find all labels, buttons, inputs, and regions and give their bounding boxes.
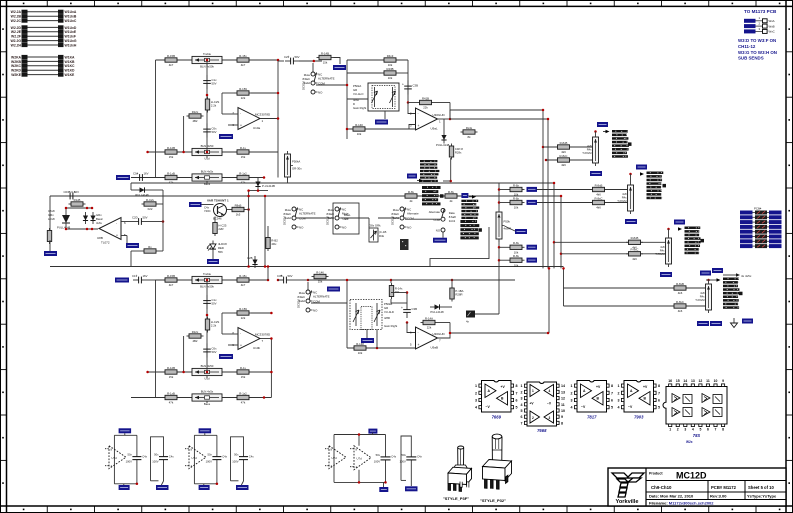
svg-text:-: - <box>240 111 241 115</box>
junction ch9 fb <box>277 92 280 95</box>
ch9 opamp in- wire <box>222 113 238 115</box>
junction bus h <box>547 332 550 335</box>
svg-text:50V: 50V <box>212 82 217 86</box>
svg-text:R-8y: R-8y <box>448 190 455 194</box>
svg-text:2.2k: 2.2k <box>211 104 217 108</box>
svg-text:R-1x2: R-1x2 <box>239 391 247 395</box>
svg-text:8: 8 <box>516 384 518 388</box>
svg-text:VU-4LD: VU-4LD <box>384 310 394 314</box>
svg-text:C2D: C2D <box>132 215 138 219</box>
junction send4 top <box>707 279 710 282</box>
svg-text:100V: 100V <box>400 460 406 464</box>
ch10 opamp in- bend <box>221 313 223 334</box>
svg-text:50x: 50x <box>208 453 213 457</box>
pot drawing STYLE_P3F <box>448 446 472 491</box>
resistor Rch102 <box>235 274 252 287</box>
svg-text:W3:D TO W3:F ON: W3:D TO W3:F ON <box>738 38 776 43</box>
resistor Rch91 <box>163 54 180 67</box>
svg-text:C4x: C4x <box>142 454 147 458</box>
svg-text:T-P2xM: T-P2xM <box>695 298 705 302</box>
mid rail y183 <box>131 182 554 184</box>
volume wiper down <box>384 111 386 119</box>
junction ch10 fb node <box>406 321 409 324</box>
svg-text:Product: Product <box>649 472 663 476</box>
capacitor C3B ch9 <box>402 81 418 95</box>
net label send3 bottom <box>660 272 672 277</box>
svg-text:-: - <box>418 112 419 116</box>
resistor Rch95 <box>163 171 180 184</box>
svg-text:NO: NO <box>407 225 412 229</box>
diode LED LDx8 <box>48 208 71 230</box>
decA cap1 top lead <box>136 435 138 456</box>
svg-text:W1KE: W1KE <box>65 73 76 77</box>
ch10 fb row right <box>251 312 271 314</box>
fader send2 <box>617 185 633 214</box>
resistor Rch92 <box>235 54 252 67</box>
text LED label <box>218 242 227 254</box>
mute COM to volume <box>316 84 347 86</box>
svg-text:4k6: 4k6 <box>632 257 637 261</box>
resistor R-C2x F22 <box>142 198 159 211</box>
connector W2 row 6 <box>740 235 782 239</box>
svg-text:R-1x: R-1x <box>240 366 247 370</box>
svg-text:C4x: C4x <box>391 455 396 459</box>
svg-text:T-P2xM: T-P2xM <box>617 199 627 203</box>
op-amp U8B <box>97 218 126 245</box>
svg-text:W1KD: W1KD <box>65 69 76 73</box>
svg-text:1: 1 <box>669 428 671 432</box>
svg-text:U7d: U7d <box>332 456 338 460</box>
decA rect1 left <box>113 435 115 484</box>
ch10 fb top wire <box>391 292 407 294</box>
svg-text:3: 3 <box>571 399 573 403</box>
svg-text:1: 1 <box>532 389 534 393</box>
switch aux F <box>429 208 456 232</box>
wire base <box>202 204 214 206</box>
resistor R left col <box>47 228 51 244</box>
ch9 left vertical <box>155 60 157 178</box>
svg-text:W1KC: W1KC <box>65 64 76 68</box>
op-amp dashed decA <box>105 446 126 469</box>
svg-text:2: 2 <box>618 391 620 395</box>
ch10 rail a <box>278 279 284 281</box>
mid rail y266 <box>50 266 564 268</box>
junction bus e <box>542 146 545 149</box>
svg-text:P50k: P50k <box>504 220 511 224</box>
svg-text:R4x: R4x <box>660 249 665 253</box>
svg-text:2: 2 <box>475 391 477 395</box>
resistor Rch96 <box>235 171 252 184</box>
pot cluster Gain Right ch9 <box>368 83 399 111</box>
decB rect1 bottom <box>194 483 217 485</box>
svg-text:4/8R: 4/8R <box>384 316 390 320</box>
IC 7668 <box>521 382 566 433</box>
resistor Rfb ch10 <box>235 307 252 320</box>
svg-text:W2KE: W2KE <box>11 73 22 77</box>
diode PULL4148 top <box>135 187 149 197</box>
wire to net after R14B <box>334 58 341 65</box>
wire aux E tap <box>442 232 444 238</box>
wire mid fader to jack <box>475 313 499 315</box>
svg-text:R-8xC: R-8xC <box>595 196 603 200</box>
ch10 fb vert <box>449 323 451 334</box>
svg-text:W1KA: W1KA <box>65 55 76 59</box>
svg-text:R-14B: R-14B <box>321 51 329 55</box>
mid vert x265 <box>264 196 266 267</box>
junction bus a <box>542 109 545 112</box>
junction ch9 d <box>146 151 149 154</box>
svg-text:R4k: R4k <box>379 234 385 238</box>
svg-text:-: - <box>418 331 419 335</box>
svg-text:+: + <box>116 234 118 238</box>
svg-text:BLN 4x5x: BLN 4x5x <box>201 390 214 394</box>
svg-text:+: + <box>402 83 404 87</box>
ml diode wire <box>131 189 135 191</box>
switch aux B box <box>333 203 359 234</box>
svg-text:G8x GRk: G8x GRk <box>369 224 381 228</box>
text Gain Right ch9 <box>353 84 366 110</box>
junction ch10 fb top <box>406 291 409 294</box>
svg-text:15k: 15k <box>323 61 328 65</box>
junction ch9 sv <box>182 151 185 154</box>
wire W2KE to W1K <box>11 73 75 78</box>
opamp2 in- wire <box>408 102 417 104</box>
svg-text:+V: +V <box>596 385 601 389</box>
wire send1 fader top <box>595 132 597 138</box>
decA rect2 bottom <box>151 480 159 482</box>
ch10 opamp in+ wire <box>228 344 238 346</box>
svg-text:4: 4 <box>618 406 620 410</box>
wire mid tap y189.5 <box>499 189 508 191</box>
svg-text:C3B: C3B <box>412 307 418 311</box>
decC rect2 <box>401 436 411 480</box>
svg-text:5: 5 <box>516 406 518 410</box>
net stack GP1 text <box>420 160 439 182</box>
svg-text:P-UL414B: P-UL414B <box>262 184 275 188</box>
svg-text:PULL4148: PULL4148 <box>135 193 149 197</box>
svg-text:R-1x2: R-1x2 <box>239 171 247 175</box>
svg-text:U30GUD: U30GUD <box>433 332 446 336</box>
junction bus d <box>560 195 563 198</box>
left col down <box>49 196 51 232</box>
svg-text:R12x: R12x <box>192 110 199 114</box>
svg-text:Alternate: Alternate <box>407 212 419 216</box>
connector W2 row 5 <box>740 230 782 234</box>
ch9 small vert <box>183 116 185 152</box>
svg-text:DCOM: DCOM <box>302 81 306 90</box>
node row y229 <box>66 228 98 230</box>
fb vertical <box>449 103 451 120</box>
ch9 right vertical <box>277 60 279 178</box>
title block frame <box>608 468 786 506</box>
capacitor C13 ch10 <box>203 295 217 309</box>
junction decB bottom <box>216 483 219 486</box>
decB rect2 <box>231 437 244 481</box>
junction collector <box>247 208 250 211</box>
svg-text:2: 2 <box>532 416 534 420</box>
svg-text:R43B: R43B <box>387 67 394 71</box>
svg-text:U5d: U5d <box>204 157 210 161</box>
capacitor decB C1 <box>206 453 228 464</box>
ch10 cap top <box>406 293 408 305</box>
svg-text:3xC2: 3xC2 <box>449 219 456 223</box>
ch9 mix in wire <box>347 128 416 130</box>
text GRx basic <box>96 213 103 225</box>
junction bus c <box>553 182 556 185</box>
wire send3 fader top <box>668 229 670 238</box>
fader aux bottom wire <box>287 177 289 183</box>
svg-text:22R: 22R <box>218 227 223 231</box>
svg-text:PCB# M1172: PCB# M1172 <box>711 485 737 490</box>
svg-text:7669: 7669 <box>492 415 502 420</box>
bus x554 <box>553 183 555 268</box>
svg-text:U10a: U10a <box>253 126 261 130</box>
resistor R mid left <box>69 198 86 206</box>
svg-text:R12x: R12x <box>192 330 199 334</box>
fader mid bottom <box>498 239 500 314</box>
svg-text:1: 1 <box>618 384 620 388</box>
ch10 r28 top <box>451 280 453 286</box>
mid vert x248 <box>248 191 250 267</box>
ml res bot wire <box>159 250 164 252</box>
svg-text:SUB SENDS: SUB SENDS <box>738 56 764 61</box>
capacitor C6 ch10 <box>203 344 217 358</box>
resistor R aux A <box>403 190 420 203</box>
svg-text:1k5: 1k5 <box>236 213 241 217</box>
svg-text:W2KC: W2KC <box>11 64 22 68</box>
junction bus j <box>553 241 556 244</box>
svg-text:16V: 16V <box>143 274 148 278</box>
ground symbol <box>731 318 738 328</box>
resistor mid tap y202.5 <box>508 196 525 209</box>
svg-text:Filename: M1172v300sch.sch2002: Filename: M1172v300sch.sch2002 <box>649 501 714 506</box>
ml top stub <box>130 183 132 190</box>
svg-text:W1UxH: W1UxH <box>65 43 77 47</box>
r-b2 top <box>267 226 269 235</box>
junction mid c <box>247 265 250 268</box>
svg-text:DCOM: DCOM <box>283 216 287 225</box>
svg-text:R-15x: R-15x <box>239 54 247 58</box>
connector W3 row WxB <box>744 22 775 29</box>
junction send1 top <box>594 130 597 133</box>
collector wire <box>227 209 230 211</box>
svg-text:3: 3 <box>684 428 686 432</box>
svg-text:P50kA: P50kA <box>292 160 300 164</box>
svg-text:4x8: 4x8 <box>622 192 627 196</box>
resistor send3 B <box>626 248 643 261</box>
connector W3 row WxA <box>744 16 775 23</box>
decB bot stub <box>203 484 205 485</box>
mute COM to pot ch10 <box>311 302 347 304</box>
svg-text:U8B: U8B <box>97 236 103 240</box>
net label decC bot2 <box>405 486 418 491</box>
net label decA top <box>119 428 132 433</box>
svg-text:W2.2B: W2.2B <box>11 15 22 19</box>
svg-text:100V: 100V <box>126 459 132 463</box>
svg-text:R-1xB: R-1xB <box>167 391 175 395</box>
svg-text:Rev:3.00: Rev:3.00 <box>710 494 727 499</box>
svg-text:Gain Right: Gain Right <box>384 324 397 328</box>
junction bus g <box>548 267 551 270</box>
ch10 small vert <box>183 336 185 372</box>
resistor mid tap y189.5 <box>508 183 525 196</box>
mid top rail <box>249 190 268 192</box>
svg-text:15: 15 <box>676 379 680 383</box>
svg-text:R-8x: R-8x <box>513 196 520 200</box>
svg-text:22k: 22k <box>427 326 432 330</box>
net label emitter <box>207 259 219 264</box>
capacitor C2D <box>132 215 148 225</box>
svg-text:W1UxF: W1UxF <box>65 35 77 39</box>
svg-text:50x: 50x <box>401 453 406 457</box>
ch10 diode wire <box>444 306 452 308</box>
svg-text:W2KD: W2KD <box>11 69 22 73</box>
svg-text:C4x: C4x <box>249 454 254 458</box>
volume loop left vertical <box>346 60 348 139</box>
d1b join <box>257 177 259 180</box>
junction ch10 f <box>277 279 280 282</box>
svg-text:R-15x: R-15x <box>239 274 247 278</box>
svg-text:4B2: 4B2 <box>193 339 198 343</box>
junction ch9 out <box>277 117 280 120</box>
ch10 rail c <box>308 279 391 281</box>
fader aux P50kA <box>285 151 303 180</box>
svg-text:C4x: C4x <box>222 454 227 458</box>
svg-text:C1x: C1x <box>132 274 138 278</box>
svg-text:Ch9-Ch10: Ch9-Ch10 <box>651 485 672 490</box>
svg-text:W2KB: W2KB <box>11 60 22 64</box>
svg-text:9: 9 <box>561 415 563 419</box>
IC 78S <box>663 379 727 438</box>
wire W2KC to W1K <box>11 64 75 68</box>
svg-text:16: 16 <box>668 379 672 383</box>
ml res bot left <box>131 250 142 252</box>
pot aux C <box>369 224 386 243</box>
wire send3 arrow <box>678 227 682 231</box>
svg-text:"STYLE_P32": "STYLE_P32" <box>480 498 506 503</box>
wire mid tap y260.2 <box>499 259 508 261</box>
resistor Rch106 <box>235 391 252 404</box>
connector stack send3 <box>685 227 705 255</box>
junction bus i <box>545 159 548 162</box>
svg-text:R-8xB: R-8xB <box>631 236 639 240</box>
svg-text:"STYLE_P3F": "STYLE_P3F" <box>443 496 469 501</box>
svg-text:3: 3 <box>618 399 620 403</box>
svg-text:R28R: R28R <box>455 293 462 297</box>
svg-text:W1UxD: W1UxD <box>65 26 77 30</box>
diode stub ch9 <box>443 119 445 132</box>
connector stack send2 <box>647 172 667 200</box>
note W3 jumpers <box>738 38 777 61</box>
svg-text:1: 1 <box>521 384 523 388</box>
svg-text:U9aB: U9aB <box>431 346 439 350</box>
wire mid tap y247.3 <box>499 246 508 248</box>
svg-text:R-8x: R-8x <box>408 190 415 194</box>
svg-text:MC12D: MC12D <box>676 471 707 481</box>
decC rect2 capbot <box>410 460 412 486</box>
net label ch9 input <box>116 175 130 180</box>
svg-text:+V: +V <box>643 385 648 389</box>
junction ch10 out <box>270 337 273 340</box>
svg-text:4: 4 <box>475 406 477 410</box>
resistor R-14B ch9 <box>317 51 334 64</box>
svg-text:W2.2C: W2.2C <box>11 19 22 23</box>
mid rail y196 <box>50 195 561 197</box>
svg-text:R-8xC: R-8xC <box>560 154 568 158</box>
diode D2B bottom <box>252 256 257 268</box>
svg-text:U7d: U7d <box>192 456 198 460</box>
svg-text:7: 7 <box>715 428 717 432</box>
svg-text:U7d: U7d <box>112 456 118 460</box>
svg-text:W2KA: W2KA <box>11 55 22 59</box>
connector W2 row 2 <box>740 215 782 219</box>
junction mix ch9 <box>346 128 349 131</box>
capacitor decC C2 <box>400 453 423 464</box>
junction out2 ch9 <box>449 118 452 121</box>
junction ch10 mix <box>376 347 379 350</box>
ml res wire <box>159 203 164 205</box>
junction ch10 sv <box>182 371 185 374</box>
fader mid top <box>498 183 500 209</box>
decA rect2 capbot <box>163 460 165 481</box>
bus x564 <box>563 268 565 306</box>
connector jack mid <box>466 311 475 324</box>
decC cap1 bot lead <box>385 460 387 482</box>
net label send4 top <box>700 271 711 276</box>
svg-text:10k: 10k <box>514 206 519 210</box>
switch mute ch9 <box>302 72 335 94</box>
ch10 rail b <box>292 279 308 281</box>
resistor R collector <box>230 203 247 216</box>
mute NC stub ch10 <box>307 282 309 290</box>
op-amp U9 ch10 <box>410 327 446 350</box>
junction ch10 out <box>449 332 452 335</box>
net label ch9 col <box>219 134 233 139</box>
svg-text:R-1x: R-1x <box>240 146 247 150</box>
switch aux A <box>283 207 316 229</box>
decA rect2 <box>151 437 164 481</box>
diode D1B top <box>255 178 260 190</box>
svg-text:4k6: 4k6 <box>596 206 601 210</box>
net label aux send ch9 <box>333 65 346 70</box>
ch10 opamp out wire <box>260 338 271 340</box>
svg-text:W2.2H: W2.2H <box>11 43 22 47</box>
bus x549 low <box>548 268 550 333</box>
svg-text:4: 4 <box>549 389 551 393</box>
svg-text:4B2: 4B2 <box>193 119 198 123</box>
net label aux ch10 <box>327 287 340 292</box>
resistor Rfb ch9 <box>235 87 252 100</box>
junction ml d <box>65 228 68 231</box>
decC rect bottom <box>334 481 386 483</box>
resistor R-14A ch10 <box>421 316 438 329</box>
svg-text:Treble: Treble <box>203 52 211 56</box>
transistor Q1 BC546 <box>214 204 227 217</box>
svg-text:WxB: WxB <box>769 24 775 28</box>
ch10 bass rail <box>131 397 271 399</box>
svg-text:C3B: C3B <box>277 274 283 278</box>
wire gp down <box>430 227 489 267</box>
capacitor C2x ch9 out <box>284 55 300 65</box>
svg-text:556: 556 <box>218 250 223 254</box>
svg-text:50x: 50x <box>234 453 239 457</box>
svg-text:50V: 50V <box>295 55 300 59</box>
net label send2 bottom <box>625 219 637 224</box>
svg-text:12: 12 <box>561 397 565 401</box>
pot Treble ch9 <box>192 52 222 68</box>
junction mid tap y247.3 <box>498 246 501 249</box>
junction ch9 b <box>206 94 209 97</box>
